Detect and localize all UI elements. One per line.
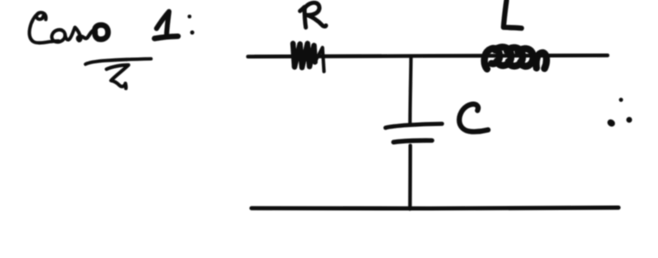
label C [459, 104, 488, 131]
letter o of Caso (bold) [95, 25, 108, 39]
colon after 1 [188, 15, 192, 19]
therefore dot top [619, 98, 623, 102]
denominator numeral 2 [107, 65, 129, 88]
inductor L scribble [484, 47, 546, 69]
capacitor bottom plate [394, 140, 433, 142]
wire from top wire to capacitor [410, 57, 411, 125]
resistor R scribble [293, 44, 315, 68]
title word "Caso" [29, 13, 58, 43]
bottom wire [252, 206, 619, 211]
label L [504, 1, 522, 29]
numeral 1 [157, 12, 170, 37]
therefore dot right [626, 117, 632, 123]
fraction bar [86, 59, 152, 64]
capacitor top plate [386, 124, 443, 128]
therefore dot bottom-left [606, 118, 616, 128]
top wire [248, 55, 608, 56]
wire from capacitor to bottom wire [408, 146, 412, 210]
label R [300, 7, 306, 28]
